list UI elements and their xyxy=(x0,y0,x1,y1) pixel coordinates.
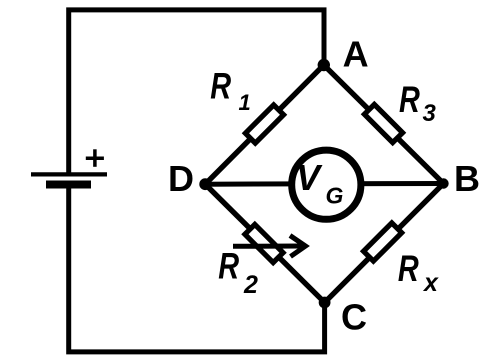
svg-text:R: R xyxy=(399,80,420,121)
R2 wiper arrow xyxy=(233,236,306,257)
label Rx xyxy=(398,249,419,290)
svg-text:2: 2 xyxy=(243,271,258,299)
wire: arm A to D xyxy=(205,65,324,184)
resistor R2 body (variable) xyxy=(245,224,283,262)
svg-text:x: x xyxy=(422,269,439,297)
node C junction dot xyxy=(319,297,331,309)
label R1 xyxy=(210,66,231,107)
node A junction dot xyxy=(318,59,330,71)
wire: galvanometer branch D to B xyxy=(205,181,443,187)
label R3 xyxy=(399,80,420,121)
svg-text:D: D xyxy=(168,158,194,199)
label R2 xyxy=(218,246,239,287)
svg-text:V: V xyxy=(296,157,323,198)
galvanometer U1 circle xyxy=(292,150,361,219)
wire: battery top lead, top rail, drop to node A xyxy=(69,10,324,174)
svg-text:A: A xyxy=(343,34,369,75)
svg-text:R: R xyxy=(210,66,231,107)
svg-text:1: 1 xyxy=(239,90,251,115)
svg-text:3: 3 xyxy=(423,100,437,127)
wire: arm A to B xyxy=(324,65,444,184)
svg-text:B: B xyxy=(454,158,480,199)
battery plus sign xyxy=(86,149,104,167)
battery positive plate (long) xyxy=(31,172,107,176)
wire: battery bottom lead, bottom rail, rise to node C xyxy=(69,185,325,352)
svg-text:C: C xyxy=(341,297,367,338)
svg-text:G: G xyxy=(326,183,344,209)
svg-text:R: R xyxy=(398,249,419,290)
svg-text:R: R xyxy=(218,246,239,287)
node B junction dot xyxy=(438,178,448,188)
wire: arm C to B xyxy=(325,184,444,303)
resistor R1 body xyxy=(245,105,283,143)
node D junction dot xyxy=(199,178,211,190)
wire: arm D to C xyxy=(205,184,324,302)
resistor Rx body xyxy=(364,223,402,261)
battery negative plate (short thick) xyxy=(46,181,91,189)
resistor R3 body xyxy=(364,104,402,142)
